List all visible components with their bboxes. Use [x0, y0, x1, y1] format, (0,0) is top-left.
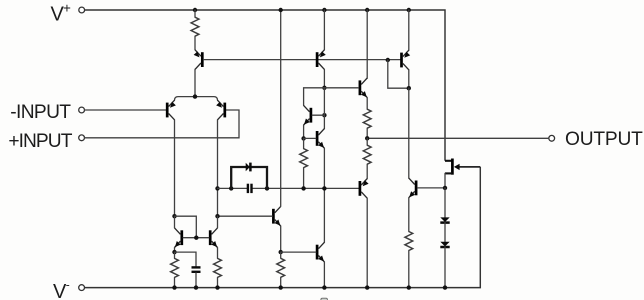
wire Q7 emitter to Q8 base node [303, 125, 305, 138]
wire node E to Q12 base [281, 251, 316, 253]
node V- rail C2 [194, 285, 198, 289]
node C [301, 136, 305, 140]
wire Q4 collector down [323, 69, 325, 87]
wire R6 to V- rail [174, 277, 176, 287]
wire node A to Q9 base [218, 215, 273, 217]
wire Q12 emitter to V- rail [323, 262, 325, 288]
wire compensation loop top-right [250, 167, 267, 188]
wire C2 to V- rail [195, 273, 197, 288]
terminal V+ [79, 7, 85, 13]
wire Q13m emitter down [174, 248, 176, 253]
transistor Q12 [317, 242, 324, 262]
node Q7 base [322, 113, 326, 117]
wire common emitter bar of Q1 Q2 [175, 97, 218, 101]
diode D3 [440, 242, 449, 247]
node output [365, 136, 369, 140]
svg-text:+: + [63, 1, 71, 16]
wire node F to mirror bases [175, 216, 197, 238]
wire node A to Q14m collector [217, 216, 219, 228]
wire node F to Q13m collector [174, 216, 176, 228]
wire R1 to Q3 emitter [194, 36, 196, 50]
wire Q10 collector to V- rail [366, 198, 368, 287]
node diff tail [193, 94, 197, 98]
wire mid line left segment [218, 187, 247, 189]
wire Q5 base-collector tie [388, 60, 409, 88]
transistor Q1 [167, 100, 176, 120]
node rail-Q4 [322, 8, 326, 12]
wire node C to R4 [303, 138, 305, 148]
resistor R5 [277, 258, 285, 277]
node V- rail R7 [215, 285, 219, 289]
capacitor C2 [192, 267, 201, 271]
node Q5 base tie [386, 58, 390, 62]
wire rail to R1 [194, 10, 196, 17]
wire R2 to output node [366, 128, 368, 138]
wire mirror base tie [183, 237, 209, 239]
wire Q9 emitter down [280, 226, 282, 252]
wire node H to D2 [444, 188, 446, 217]
node E [279, 250, 283, 254]
wire node G to R6 [174, 252, 176, 258]
transistor Q13m [175, 228, 182, 248]
svg-text:-: - [66, 278, 70, 292]
wire output node to OUTPUT terminal [367, 137, 549, 139]
wire D2 to D3 [444, 222, 446, 241]
node G [172, 250, 176, 254]
diode D1 [246, 163, 251, 172]
wire Q1 collector down to mirror [174, 120, 176, 216]
wire node C to Q8 base [304, 137, 316, 139]
wire node B to Q7 collector [304, 88, 325, 106]
node mid-column junction [322, 186, 326, 190]
node rail-Q9 [279, 8, 283, 12]
node H [443, 186, 447, 190]
wire column node B down to Q8 collector [323, 88, 325, 129]
resistor R8 [405, 232, 413, 251]
wire Q2 collector down through node A [217, 120, 219, 216]
wire Q11 emitter to R8 [408, 198, 410, 232]
node V- rail R6 [172, 285, 176, 289]
terminal V- [79, 285, 85, 291]
transistor Q5 [402, 50, 411, 70]
node V- rail Q12e [322, 285, 326, 289]
transistor Q14 fet [445, 159, 460, 175]
wire node G to C2 [175, 252, 197, 266]
svg-text:-INPUT: -INPUT [10, 102, 71, 123]
wire R3 to Q10 emitter [366, 164, 368, 178]
resistor R2 [363, 109, 371, 128]
wire Q3 base to Q4 base to Q5 base [204, 59, 401, 61]
transistor Q11 [409, 178, 416, 198]
wire compensation loop left-top [231, 167, 245, 188]
wire rail to Q6 collector [366, 10, 368, 78]
transistor Q8 [317, 129, 324, 149]
wire node E to R5 [280, 252, 282, 258]
transistor Q4 [317, 50, 326, 70]
node loop right [265, 186, 269, 190]
wire output node to R3 [366, 138, 368, 145]
node A [215, 214, 219, 218]
transistor Q9 [273, 206, 280, 226]
resistor R4 [300, 149, 308, 168]
transistor Q14m [210, 228, 217, 248]
transistor Q3 [194, 50, 203, 70]
wire R4 to mid line [303, 168, 305, 189]
transistor Q2 [216, 100, 225, 120]
wire Q5 collector down [408, 70, 410, 88]
wire fet source down to node H [444, 173, 446, 188]
wire rail to Q5 emitter [408, 10, 410, 50]
node V- rail R5 [279, 285, 283, 289]
svg-text:+INPUT: +INPUT [8, 131, 72, 152]
wire node B to Q6 base [324, 87, 358, 89]
wire Q8 emitter down to Q12 collector [323, 148, 325, 242]
resistor R6 [171, 258, 179, 277]
node F [172, 214, 176, 218]
wire Q7 base to column [312, 114, 324, 116]
node rail-R1 [193, 8, 197, 12]
wire R7 to V- rail [217, 277, 219, 287]
wire R5 to V- rail [280, 277, 282, 287]
resistor R3 [363, 145, 371, 164]
wire Q5 collector to Q11 collector [408, 88, 410, 178]
terminal -INPUT [79, 107, 85, 113]
node B [322, 86, 326, 90]
node Q5 collector [407, 86, 411, 90]
resistor R1 [191, 17, 199, 36]
terminal OUTPUT [549, 135, 555, 141]
node R4 bottom [301, 186, 305, 190]
wire mid line right segment to Q10 base [253, 187, 359, 189]
wire V- rail and gate riser [85, 167, 481, 288]
wire D3 to V- rail [444, 247, 446, 288]
wire -input to Q1 base [85, 109, 166, 111]
node rail-Q6 [365, 8, 369, 12]
node loop left [229, 186, 233, 190]
wire gate of Q13 [459, 166, 480, 168]
transistor Q10 [360, 179, 369, 199]
transistor Q7 [304, 105, 311, 125]
node V- rail R8 [407, 285, 411, 289]
node V- rail Q10c [365, 285, 369, 289]
wire rail to Q9 collector [280, 10, 282, 206]
resistor R7 [214, 258, 222, 277]
wire Q3 collector to diff-pair tail [194, 69, 196, 96]
node V- rail D3 [443, 285, 447, 289]
node D [215, 186, 219, 190]
label artifact [321, 298, 328, 300]
svg-text:OUTPUT: OUTPUT [565, 129, 643, 150]
capacitor C1 [248, 184, 252, 193]
wire V+ rail and right drop to Q13 drain [85, 10, 445, 161]
terminal +INPUT [79, 135, 85, 141]
wire Q14m emitter down [217, 248, 219, 259]
wire R8 to V- rail [408, 251, 410, 288]
transistor Q6 [360, 78, 367, 98]
wire rail to Q4 emitter [323, 10, 325, 50]
wire Q11 base to node H [418, 187, 446, 189]
diode D2 [440, 217, 449, 222]
node rail-Q5 [407, 8, 411, 12]
wire +input to Q2 base [85, 110, 240, 138]
wire Q6 emitter to R2 [366, 98, 368, 110]
node mirror base [194, 236, 198, 240]
